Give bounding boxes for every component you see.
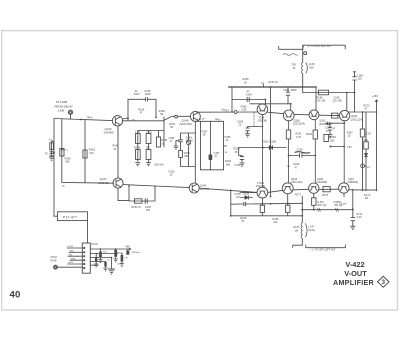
wire Q147 output [123, 185, 189, 188]
ground b6 [104, 268, 108, 271]
wire ladder v1 [200, 121, 202, 170]
wire output drop [293, 196, 303, 247]
svg-text:100: 100 [146, 209, 151, 212]
node rows [288, 155, 290, 157]
resistor R166 (on rail) [319, 90, 329, 95]
wire feedback loop [128, 98, 156, 119]
stub C151 ground [176, 141, 179, 146]
label R157 [202, 130, 209, 136]
resistor R148 [135, 134, 140, 144]
label Q160 [293, 119, 305, 125]
svg-text:10K Typ: 10K Typ [317, 204, 327, 207]
label Q158 [258, 117, 267, 123]
svg-text:P149: P149 [92, 243, 98, 246]
svg-text:0.01: 0.01 [357, 216, 362, 219]
label R172 [364, 104, 371, 110]
label R151 [169, 123, 176, 129]
wire box down [87, 221, 89, 243]
svg-text:(2SC38): (2SC38) [256, 185, 265, 188]
supply +15V [372, 95, 378, 112]
wire bias box [62, 119, 114, 183]
wire pins right top [90, 248, 130, 250]
capacitor C157 (elco) [209, 154, 213, 160]
wire b2 [95, 254, 97, 265]
label R153b [169, 170, 176, 176]
svg-text:1S188: 1S188 [185, 139, 193, 142]
node loop right [154, 186, 156, 188]
node x54 blob [53, 152, 55, 154]
stub coax [279, 46, 303, 49]
wire aux row [241, 197, 253, 199]
wire CRT drop [302, 45, 304, 92]
rail mid bias [232, 99, 265, 101]
capacitor blob b5 [126, 251, 129, 255]
wire Q148 emitter chain [194, 121, 196, 183]
node base tie bottom [239, 191, 241, 193]
rail bottom a [231, 202, 302, 205]
svg-text:C166: C166 [283, 89, 290, 92]
label Q167 [347, 178, 358, 184]
svg-text:40: 40 [10, 289, 21, 300]
svg-text:(2SC1124): (2SC1124) [293, 123, 305, 126]
svg-text:RED: RED [70, 251, 75, 253]
capacitor C153 [146, 150, 151, 160]
svg-text:R163: R163 [306, 133, 313, 136]
transistor Q147 [113, 178, 123, 188]
wire b5 [127, 249, 129, 251]
ground (C172) [351, 226, 355, 229]
svg-text:68K: 68K [364, 139, 369, 142]
wire Q162 collector [315, 87, 317, 110]
svg-text:(2SC1124): (2SC1124) [291, 181, 303, 184]
capacitor C150 [145, 199, 147, 204]
svg-text:C152: C152 [146, 131, 153, 134]
wire Q146 collector out [122, 116, 190, 121]
wire RC loop [129, 186, 155, 201]
svg-text:15K: 15K [146, 147, 151, 150]
svg-text:2SA495: 2SA495 [104, 131, 115, 135]
resistor R151 [156, 137, 160, 147]
svg-text:R177: R177 [295, 193, 302, 196]
svg-text:1.5K: 1.5K [135, 131, 140, 134]
label C169 [325, 127, 332, 133]
label C151 D149 R152 [169, 136, 194, 158]
resistor R183 [312, 198, 316, 206]
transistor Q146 [112, 116, 122, 126]
label R163 [306, 133, 313, 136]
node rail112 x376 [376, 111, 378, 113]
svg-text:Delay: Delay [309, 229, 316, 232]
labels pin rows [67, 246, 76, 264]
label HIGH [51, 256, 57, 263]
transistor Q164 [339, 110, 349, 120]
svg-text:2T₅: 2T₅ [131, 119, 136, 122]
wire b4 [121, 254, 123, 264]
more sections appended below [51, 45, 379, 274]
inductor L170 (delay) [301, 223, 307, 239]
node Q162 coll [315, 86, 317, 88]
svg-text:P17-477: P17-477 [63, 215, 77, 219]
dashed stub [253, 113, 255, 127]
label C157 [214, 152, 221, 158]
resistor R161 [286, 130, 290, 139]
wire squiggle Aw26 [86, 116, 92, 119]
svg-text:(2SC799): (2SC799) [180, 122, 192, 126]
wire Q158 collector [264, 100, 266, 105]
wire Q164 emitter chain [343, 121, 345, 183]
svg-text:R147: R147 [134, 93, 141, 96]
connector bead on line [175, 115, 178, 118]
wire Q146 emitter chain [117, 126, 119, 178]
label Q165 [316, 178, 327, 184]
bias cluster Q148 wires [181, 133, 196, 167]
label 2T [131, 119, 136, 122]
node x270 diode [270, 147, 272, 149]
label R154 [225, 160, 232, 166]
node c156 [230, 190, 232, 192]
node Q158 coll [265, 99, 267, 101]
rail right 112 [349, 111, 376, 113]
svg-text:10KV: 10KV [68, 262, 74, 264]
label R141 [45, 139, 54, 156]
diode D149 [186, 141, 190, 145]
svg-text:1K: 1K [225, 139, 228, 142]
ground (input term) [49, 157, 54, 160]
transistor Q165 [309, 183, 319, 193]
svg-text:Aw₂₇: Aw₂₇ [221, 109, 227, 112]
label C163 [297, 149, 304, 152]
connector bead 3 [304, 52, 307, 55]
svg-text:D158: D158 [243, 193, 250, 196]
node Q160 coll [290, 103, 292, 105]
label Q148 [180, 118, 192, 126]
ground (cluster a) [136, 163, 140, 166]
emitter cluster Q158 [248, 127, 264, 134]
label 4x [225, 151, 227, 154]
label J tick [62, 185, 65, 188]
ground b2 [94, 264, 98, 267]
rail bottom right [302, 209, 353, 211]
capacitor C140 [50, 152, 54, 156]
svg-text:D160 1S188: D160 1S188 [262, 141, 277, 144]
svg-text:4.3K: 4.3K [241, 109, 246, 112]
svg-text:R150 47: R150 47 [132, 206, 142, 209]
node diode rail [262, 147, 264, 149]
svg-text:R167 1K: R167 1K [269, 81, 279, 84]
capacitor C172 [351, 190, 363, 226]
resistor R140 [50, 143, 54, 150]
svg-text:C163: C163 [297, 149, 304, 152]
ground (C151) [174, 146, 178, 149]
tick riser [263, 84, 265, 87]
wire side tap a [331, 122, 344, 124]
svg-text:P148: P148 [51, 260, 57, 263]
resistor R149 [135, 150, 140, 160]
node coil bottom [302, 86, 304, 88]
svg-text:HIGH: HIGH [51, 256, 57, 259]
connector pins [84, 247, 85, 268]
label C165 [333, 96, 343, 102]
resistor R173 [364, 139, 369, 149]
inductor L168 [302, 62, 308, 73]
resistor blob b3 [114, 250, 117, 257]
wire riser x232 [231, 87, 233, 112]
node e2 tick [288, 165, 290, 167]
node rail190 dots [352, 189, 378, 210]
transistor Q158 [257, 104, 268, 115]
capacitor C156 [235, 193, 242, 199]
rail bottom b [231, 215, 302, 217]
bracket to CRT bottom [306, 245, 346, 248]
node rows b [314, 155, 316, 157]
capacitor C159 [246, 128, 250, 131]
rail right 190 [349, 189, 377, 191]
label Q162 [319, 120, 330, 126]
squiggle Aw28 [340, 203, 347, 206]
resistor R182 [286, 205, 290, 212]
rail plate right [303, 92, 355, 94]
svg-text:680: 680 [184, 155, 189, 158]
label 1.5V [347, 146, 352, 149]
label D160 [262, 141, 277, 144]
resistor R152 [179, 150, 183, 157]
label C164 [246, 91, 253, 97]
svg-text:LINE: LINE [58, 109, 64, 113]
label Q149 [200, 184, 210, 191]
wire left rail [53, 119, 55, 217]
svg-text:(2SC1124): (2SC1124) [351, 118, 363, 121]
label Q164 [351, 115, 363, 121]
capacitor C157 (series) [244, 202, 246, 206]
svg-text:Aw₂₈: Aw₂₈ [214, 118, 220, 121]
svg-text:J-77: J-77 [200, 118, 205, 121]
ground (C159) [245, 134, 249, 137]
terminal diamond 2 [54, 265, 58, 269]
capacitor C151 [179, 140, 183, 142]
resistor R163 [313, 130, 317, 139]
cluster tiny labels [98, 252, 129, 266]
label R147 C148 [134, 90, 151, 115]
svg-text:600: 600 [310, 66, 315, 69]
node side a [343, 122, 345, 124]
divider ladder top [195, 120, 223, 122]
transistor Q162 [309, 110, 319, 120]
node input junction [80, 119, 82, 121]
terminator stub [52, 142, 54, 158]
wire right col a [362, 112, 364, 190]
label R167 [261, 81, 279, 85]
label cluster a [134, 131, 168, 167]
label R167b [347, 131, 354, 137]
label Q163 [291, 178, 303, 184]
rail ladder bottom [201, 169, 224, 171]
node side b [343, 146, 345, 148]
label Q146 [104, 127, 115, 135]
diode D166 [365, 154, 368, 157]
label R156 [240, 217, 247, 223]
svg-text:C164: C164 [246, 94, 253, 97]
wire from Q149 [199, 188, 257, 192]
wire ladder v3 [224, 121, 227, 170]
wire cap to rail112 [354, 93, 356, 113]
label R168 [234, 148, 241, 154]
svg-text:680P: 680P [291, 89, 297, 92]
capacitor blob b6 [104, 262, 106, 267]
resistor R150 [135, 199, 143, 203]
label J-7 [226, 110, 230, 113]
capacitor C163 [300, 154, 302, 158]
svg-text:+15V: +15V [372, 95, 378, 98]
stub Q167 emitter [343, 193, 345, 196]
node x61 tap [61, 149, 65, 151]
wire Q162 emitter [314, 120, 316, 184]
wire right col c [376, 112, 378, 190]
node rails [262, 202, 315, 216]
resistor R164 [324, 135, 336, 143]
svg-text:Aw₂₆: Aw₂₆ [86, 116, 92, 119]
node rail112 x362 [362, 111, 364, 113]
resistor blob b1 [99, 252, 102, 258]
svg-text:(2SA566): (2SA566) [316, 181, 327, 184]
svg-text:4ₓ: 4ₓ [225, 151, 227, 154]
svg-text:4.7K: 4.7K [296, 136, 301, 139]
left mid cluster wires [138, 117, 164, 163]
label +15K [126, 246, 141, 254]
svg-text:47K: 47K [89, 152, 94, 155]
svg-text:← Y₁ TO CRT LEFT PLT: ← Y₁ TO CRT LEFT PLT [308, 249, 336, 252]
node loop left [128, 185, 130, 187]
label R174 [364, 194, 371, 200]
node cluster dots [96, 248, 123, 258]
svg-text:2.2K: 2.2K [366, 133, 371, 136]
label TO CRT bottom [308, 249, 336, 252]
label Aw27 [221, 109, 227, 112]
node cap rail [354, 92, 356, 94]
resistor R181 [260, 205, 264, 212]
resistor R142 [60, 149, 71, 164]
label D158 [243, 193, 250, 196]
node collector [127, 118, 129, 120]
wire Q165 base [293, 188, 309, 191]
svg-text:1K: 1K [244, 81, 247, 84]
resistor R143 [83, 149, 95, 158]
svg-text:1.5V: 1.5V [347, 146, 352, 149]
resistor blob b4 [121, 255, 124, 262]
label R179 [295, 193, 329, 197]
resistor blob b2 [95, 257, 97, 262]
label T90 L168 [292, 63, 315, 70]
transistor Q160 [283, 110, 294, 121]
node base drop [230, 215, 232, 217]
node side b blob [330, 146, 332, 148]
wire Q164 collector [346, 93, 348, 112]
label C159 [237, 120, 244, 126]
transistor Q163 [282, 183, 293, 194]
wire Q160 collector [290, 104, 292, 110]
wire right col b [365, 112, 367, 190]
wire ladder v2 [209, 121, 211, 170]
label rail ticks [317, 201, 343, 207]
svg-text:100: 100 [358, 78, 363, 81]
capacitor C152 [146, 134, 151, 144]
wire Q163 base [240, 190, 282, 192]
wire b3 [115, 249, 117, 259]
label C1 tap [66, 150, 69, 152]
wire b6 [105, 262, 107, 269]
ground b4 [120, 264, 124, 267]
squiggle note [283, 54, 298, 56]
wire b1 [100, 249, 102, 260]
capacitor C161 [235, 148, 244, 168]
svg-text:GRN: GRN [71, 258, 76, 260]
svg-text:2.2K 1W: 2.2K 1W [316, 100, 326, 103]
emitter Q163 [287, 194, 289, 216]
wire Q148 collector line [197, 112, 340, 116]
wire long riser x270 [270, 87, 272, 197]
transistor Q149 [189, 183, 199, 193]
svg-text:V-OUT: V-OUT [344, 269, 367, 278]
wire diamond to connector [58, 266, 83, 268]
node bias rail [231, 111, 233, 113]
capacitor C167 [326, 123, 336, 135]
ground b1 [99, 260, 103, 263]
smear annotation [295, 152, 310, 153]
emitter Q161 [261, 198, 263, 216]
resistor R170 (base) [332, 113, 339, 118]
wire cap row a [289, 155, 316, 157]
thermistor circle [361, 164, 371, 169]
label P149 [92, 243, 98, 246]
svg-text:560: 560 [330, 140, 335, 143]
connector bead 2 [234, 111, 237, 114]
wire pins right rows [90, 254, 118, 266]
input label P17-62B FROM DELAY LINE [55, 100, 74, 113]
wire center drop [111, 258, 113, 270]
input terminal symbol [68, 110, 72, 114]
svg-text:+120V: +120V [67, 246, 74, 248]
node Q164 coll [346, 92, 348, 94]
svg-text:180: 180 [226, 163, 231, 166]
transistor Q148 [190, 111, 200, 121]
component marks on rail [318, 208, 339, 211]
ground (C161) [240, 163, 244, 166]
ground b3 [114, 259, 118, 262]
label R158 [272, 218, 279, 224]
label R145 [113, 145, 120, 152]
svg-text:V-422: V-422 [345, 260, 364, 269]
sheet diamond 3 [378, 276, 389, 287]
svg-text:10K: 10K [273, 221, 278, 224]
label R165 [243, 78, 250, 84]
rail base bias [250, 103, 291, 105]
svg-text:C161: C161 [235, 164, 242, 167]
node fb right [155, 117, 157, 119]
capacitor C169 [326, 122, 332, 124]
transistor Q161 [257, 187, 268, 198]
svg-text:220 1KV: 220 1KV [333, 100, 343, 103]
node x270 top [270, 86, 272, 88]
svg-text:4W Typ: 4W Typ [334, 204, 343, 207]
label R160 [241, 106, 248, 112]
node Q162 base tap [330, 122, 332, 124]
wire Q158 emitter [261, 115, 263, 188]
node x270 bottom [270, 196, 272, 198]
wire base drop [230, 190, 232, 215]
svg-text:(2SB463): (2SB463) [347, 181, 358, 184]
emitter Q165 [313, 193, 315, 209]
ground (C167) [328, 135, 332, 138]
label Q147 [99, 177, 110, 185]
